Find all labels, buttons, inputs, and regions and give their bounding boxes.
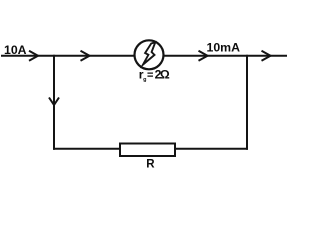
wire top left segment (1, 55, 134, 57)
svg-text:R: R (146, 159, 155, 171)
resistor R box (120, 144, 175, 157)
wire right vertical (246, 55, 248, 150)
wire top right segment (164, 55, 287, 57)
arrowhead down on left vertical wire (49, 98, 59, 106)
galvanometer G circle (135, 40, 164, 69)
arrowhead on top wire right end (262, 51, 271, 61)
wire left vertical (53, 55, 55, 150)
arrowhead on top wire before 10mA node (199, 51, 208, 61)
arrowhead on top wire mid-left (81, 51, 90, 61)
svg-text:10A: 10A (4, 43, 27, 57)
wire bottom left segment (53, 148, 120, 150)
svg-text:10mA: 10mA (207, 41, 241, 55)
wire bottom right segment (175, 148, 248, 150)
galvanometer lightning bolt icon (143, 42, 155, 64)
arrowhead on top wire after 10A (29, 51, 38, 61)
svg-text:rg=2Ω: rg=2Ω (139, 68, 170, 84)
